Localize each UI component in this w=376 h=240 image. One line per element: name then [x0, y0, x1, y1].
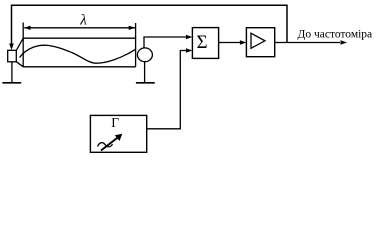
coupling loop (circle) [137, 48, 152, 62]
dimension λ line with arrows [24, 26, 135, 30]
label Г [111, 115, 119, 130]
svg-text:Σ: Σ [197, 32, 208, 53]
ground right [136, 62, 155, 83]
amplifier U2 [246, 28, 274, 57]
resonator coaxial line body [23, 23, 135, 67]
wire summer to amplifier [219, 40, 247, 45]
resonator input connector (square) [8, 38, 24, 67]
wire feedback top run [9, 5, 287, 50]
generator G1 box [90, 115, 146, 152]
label λ [79, 12, 87, 28]
label Σ [197, 32, 208, 53]
generator variable-frequency symbol [98, 134, 123, 151]
svg-text:Г: Г [111, 115, 119, 130]
svg-text:λ: λ [79, 12, 87, 28]
wire loop to summer input 1 [144, 35, 192, 49]
standing wave curve inside resonator [20, 45, 136, 63]
wire generator to summer input 2 [147, 48, 193, 129]
wire amplifier output to frequency meter [275, 40, 347, 45]
ground left [2, 62, 21, 83]
summer U1 [192, 28, 218, 59]
svg-text:До частотоміра: До частотоміра [298, 29, 373, 41]
label До частотоміра [298, 29, 373, 41]
